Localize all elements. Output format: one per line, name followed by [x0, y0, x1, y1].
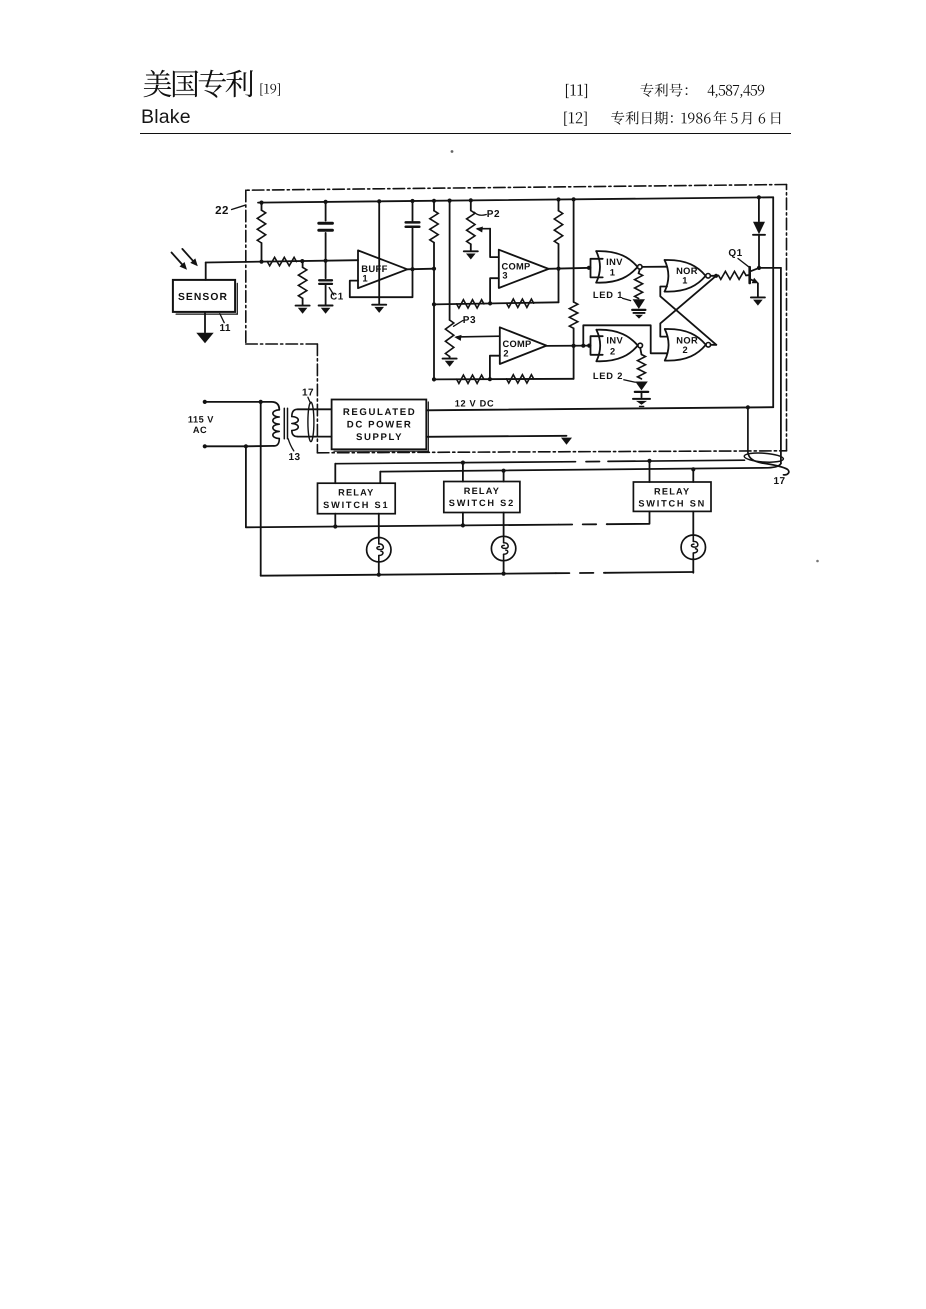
svg-text:2: 2	[503, 348, 508, 358]
svg-text:12 V DC: 12 V DC	[455, 399, 495, 409]
svg-text:RELAY: RELAY	[464, 486, 500, 496]
svg-text:1: 1	[682, 276, 688, 286]
svg-text:COMP: COMP	[502, 339, 531, 349]
svg-text:Q1: Q1	[728, 248, 742, 259]
svg-text:2: 2	[683, 345, 689, 355]
svg-text:115 V: 115 V	[188, 415, 214, 425]
svg-text:INV: INV	[606, 336, 623, 346]
svg-text:LED 1: LED 1	[593, 290, 623, 300]
svg-text:3: 3	[502, 270, 507, 280]
svg-text:22: 22	[215, 205, 229, 217]
svg-text:2: 2	[610, 346, 616, 356]
svg-text:11: 11	[220, 323, 231, 334]
svg-text:13: 13	[289, 452, 301, 463]
svg-text:RELAY: RELAY	[654, 486, 690, 496]
svg-text:P3: P3	[463, 315, 476, 326]
svg-text:SUPPLY: SUPPLY	[356, 432, 403, 443]
svg-text:SWITCH S2: SWITCH S2	[449, 498, 515, 508]
svg-text:SWITCH SN: SWITCH SN	[638, 499, 706, 509]
svg-text:SWITCH S1: SWITCH S1	[323, 500, 389, 510]
svg-text:P2: P2	[487, 209, 500, 220]
svg-text:RELAY: RELAY	[338, 488, 374, 498]
svg-text:AC: AC	[193, 425, 207, 435]
svg-text:SENSOR: SENSOR	[178, 292, 228, 303]
svg-text:1: 1	[610, 268, 616, 278]
svg-text:1: 1	[362, 274, 368, 285]
svg-text:17: 17	[774, 476, 786, 487]
svg-text:DC POWER: DC POWER	[347, 420, 413, 431]
svg-text:LED 2: LED 2	[593, 371, 623, 381]
svg-text:INV: INV	[606, 257, 623, 267]
svg-text:REGULATED: REGULATED	[343, 407, 416, 418]
